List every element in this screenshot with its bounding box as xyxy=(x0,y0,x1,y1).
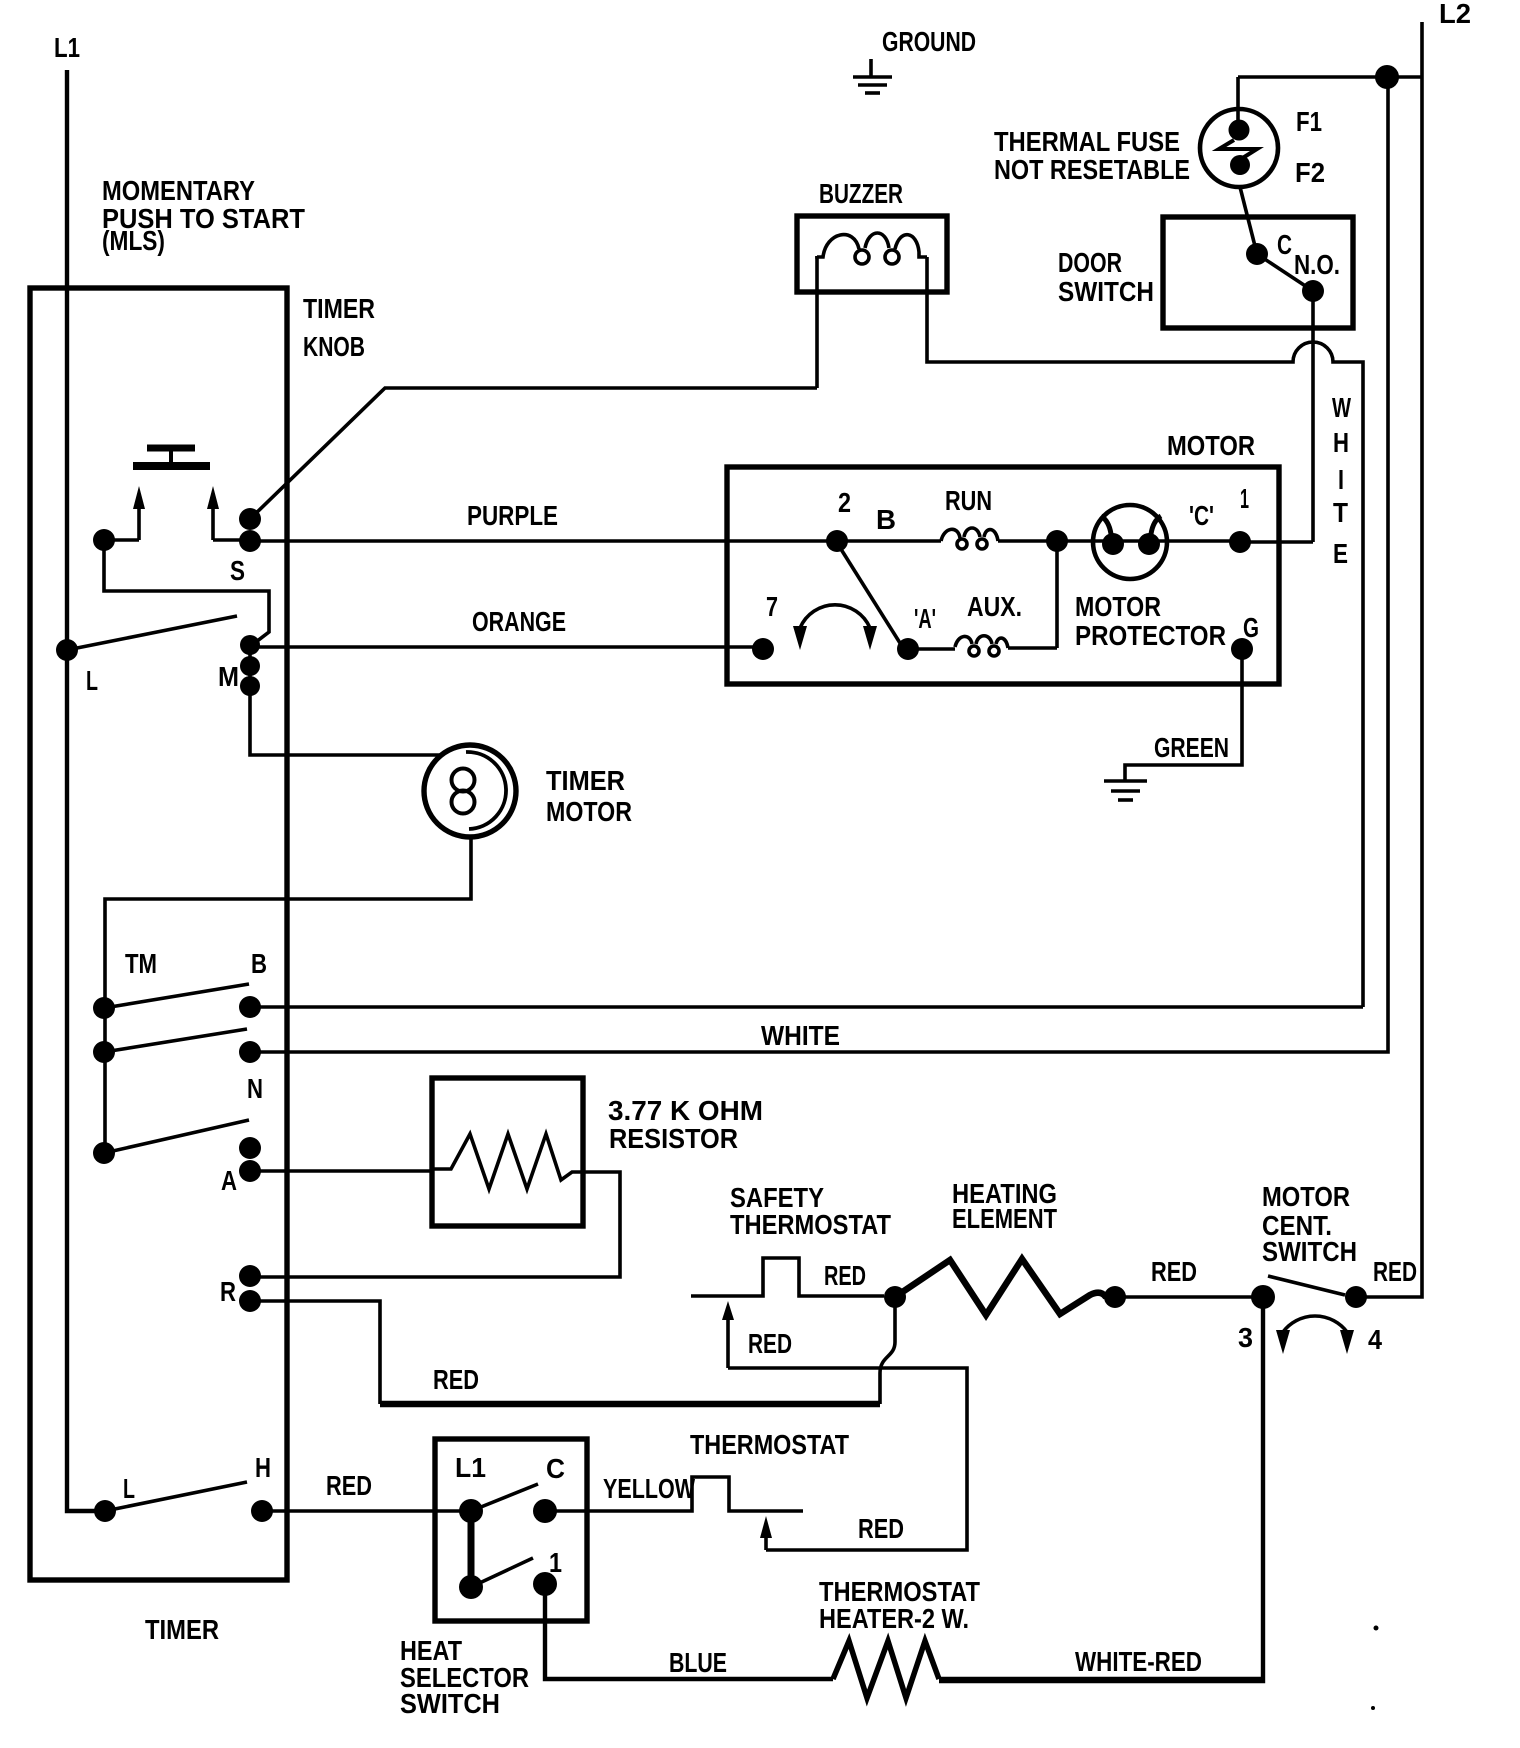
wire N WHITE to L2 junction xyxy=(250,77,1388,1052)
label MOTOR CENT. SWITCH xyxy=(1262,1181,1357,1267)
wire WHITE-RED xyxy=(939,1677,1263,1681)
svg-text:'C': 'C' xyxy=(1189,500,1214,531)
wire red safety to thermostat xyxy=(728,1368,967,1550)
svg-text:RED: RED xyxy=(748,1328,792,1359)
svg-text:F2: F2 xyxy=(1295,157,1325,188)
run winding xyxy=(837,528,1240,549)
svg-text:SWITCH: SWITCH xyxy=(1058,276,1154,307)
heating element zigzag xyxy=(895,1259,1115,1315)
svg-text:N.O.: N.O. xyxy=(1294,249,1340,280)
svg-text:MOTOR: MOTOR xyxy=(1075,591,1161,622)
push button left arrow xyxy=(133,486,145,540)
contact L1 dot selector xyxy=(459,1499,483,1523)
label SAFETY THERMOSTAT xyxy=(730,1182,891,1240)
svg-text:ELEMENT: ELEMENT xyxy=(952,1203,1057,1234)
wire RED horizontal heavy xyxy=(380,1401,880,1408)
blade TM-B xyxy=(104,984,249,1008)
blade C-N.O. xyxy=(1257,254,1313,291)
svg-text:PURPLE: PURPLE xyxy=(467,500,558,531)
svg-text:THERMOSTAT: THERMOSTAT xyxy=(690,1429,849,1460)
arc 3-4 with arrows xyxy=(1276,1316,1354,1354)
svg-text:RED: RED xyxy=(1373,1256,1417,1287)
svg-text:B: B xyxy=(251,948,267,979)
wire fuse to door switch C xyxy=(1240,187,1257,254)
svg-text:L1: L1 xyxy=(54,32,80,63)
svg-text:RUN: RUN xyxy=(945,485,992,516)
contact 1 dot xyxy=(1229,531,1251,553)
wire aux to run junction xyxy=(1055,541,1059,648)
svg-text:S: S xyxy=(230,555,245,586)
svg-text:RED: RED xyxy=(433,1364,479,1395)
svg-text:SWITCH: SWITCH xyxy=(400,1688,500,1719)
wire top junction to L2 xyxy=(1238,75,1422,79)
svg-text:BLUE: BLUE xyxy=(669,1647,727,1678)
svg-text:TIMER: TIMER xyxy=(303,293,375,324)
svg-text:A: A xyxy=(221,1165,237,1196)
blade 3-4 xyxy=(1268,1276,1345,1295)
wire ORANGE xyxy=(250,645,763,649)
svg-text:H: H xyxy=(1333,427,1349,458)
svg-text:YELLOW: YELLOW xyxy=(603,1473,695,1504)
thermal fuse F1 F2 circle xyxy=(1200,109,1278,187)
label MOMENTARY PUSH TO START (MLS) xyxy=(102,175,305,256)
buzzer coil xyxy=(817,233,927,264)
safety thermostat symbol xyxy=(691,1258,884,1296)
wire C to thermostat YELLOW xyxy=(545,1477,803,1511)
svg-text:E: E xyxy=(1333,538,1348,569)
svg-text:H: H xyxy=(255,1452,271,1483)
label HEAT SELECTOR SWITCH xyxy=(400,1635,529,1719)
label TIMER KNOB xyxy=(303,293,375,362)
blade L-H xyxy=(105,1482,247,1511)
svg-text:MOTOR: MOTOR xyxy=(546,796,632,827)
svg-text:L: L xyxy=(86,665,98,696)
junction dot heating left xyxy=(884,1286,906,1308)
wire 3 down to white-red xyxy=(939,1297,1263,1681)
wire PURPLE xyxy=(250,539,837,543)
svg-text:MOTOR: MOTOR xyxy=(1262,1181,1350,1212)
contact C dot xyxy=(1246,243,1268,265)
motor protector circle xyxy=(1093,505,1167,579)
contact M dots xyxy=(240,635,260,696)
svg-text:N: N xyxy=(247,1073,263,1104)
svg-text:TM: TM xyxy=(125,948,157,979)
timer box xyxy=(30,288,287,1580)
blade to A xyxy=(104,1120,249,1153)
contact 2 dot xyxy=(826,530,848,552)
svg-text:L1: L1 xyxy=(455,1452,486,1483)
contact R dots xyxy=(239,1265,261,1312)
wire N.O. down WHITE xyxy=(1311,291,1315,542)
svg-text:4: 4 xyxy=(1368,1324,1382,1355)
blade L1-C xyxy=(471,1484,538,1511)
label TIMER MOTOR xyxy=(546,765,632,827)
motor box xyxy=(727,467,1279,684)
wire left contact stub xyxy=(104,538,139,542)
contact S dots xyxy=(239,508,261,530)
svg-text:'A': 'A' xyxy=(914,603,936,634)
label 3.77 K OHM RESISTOR xyxy=(608,1095,763,1154)
svg-text:WHITE: WHITE xyxy=(761,1020,840,1051)
svg-text:KNOB: KNOB xyxy=(303,331,365,362)
resistor box xyxy=(432,1078,583,1226)
contact A dot motor xyxy=(897,638,919,660)
wire R RED down-right xyxy=(250,1301,380,1404)
svg-text:RESISTOR: RESISTOR xyxy=(609,1123,738,1154)
selector lower dot xyxy=(459,1575,483,1599)
junction dot top right xyxy=(1375,65,1399,89)
wire S-bend crossing xyxy=(880,1303,895,1404)
svg-text:GROUND: GROUND xyxy=(882,26,976,57)
svg-text:1: 1 xyxy=(549,1547,562,1578)
wire M to timer motor xyxy=(250,690,443,755)
thermostat heater zigzag xyxy=(833,1641,939,1698)
contact 7 dot xyxy=(752,638,774,660)
label MOTOR PROTECTOR xyxy=(1075,591,1226,651)
heat selector switch box xyxy=(435,1439,587,1621)
blade lower-1 xyxy=(471,1558,533,1587)
label THERMAL FUSE NOT RESETABLE xyxy=(994,126,1190,185)
svg-text:G: G xyxy=(1243,612,1259,643)
thermostat arrow xyxy=(760,1516,772,1550)
wire 1 to BLUE xyxy=(545,1584,833,1679)
contact TM dot xyxy=(93,997,115,1019)
ground symbol green xyxy=(1104,781,1147,800)
svg-text:2: 2 xyxy=(838,487,851,518)
svg-text:(MLS): (MLS) xyxy=(102,225,165,256)
label HEATING ELEMENT xyxy=(952,1178,1057,1234)
switch blade L to M xyxy=(67,616,237,650)
svg-text:W: W xyxy=(1332,392,1351,423)
push button actuator xyxy=(133,448,210,466)
contact N.O. dot xyxy=(1302,280,1324,302)
door switch box xyxy=(1163,217,1353,328)
svg-text:C: C xyxy=(546,1453,565,1484)
svg-text:GREEN: GREEN xyxy=(1154,732,1229,763)
svg-text:SWITCH: SWITCH xyxy=(1262,1236,1357,1267)
contact 4 dot xyxy=(1345,1286,1367,1308)
contact C dot selector xyxy=(533,1499,557,1523)
safety thermostat arrow xyxy=(722,1301,734,1368)
contact 3 dot xyxy=(1251,1285,1275,1309)
svg-text:1: 1 xyxy=(1240,483,1249,514)
wire push-button return to M xyxy=(104,549,269,645)
wire S to buzzer (diagonal) xyxy=(250,388,817,519)
svg-text:PROTECTOR: PROTECTOR xyxy=(1075,620,1226,651)
contact L dot on L1 xyxy=(56,639,78,661)
buzzer box xyxy=(797,216,947,292)
svg-text:HEATER-2 W.: HEATER-2 W. xyxy=(819,1603,969,1634)
svg-text:I: I xyxy=(1338,464,1344,495)
timer motor circle xyxy=(424,745,516,837)
blade to N xyxy=(104,1029,247,1052)
wire H RED to heat selector xyxy=(262,1509,471,1513)
svg-text:RED: RED xyxy=(858,1513,904,1544)
contact G dot xyxy=(1231,638,1253,660)
contact A dots xyxy=(239,1137,261,1182)
svg-text:AUX.: AUX. xyxy=(967,591,1022,622)
resistor R1 zigzag and return wire xyxy=(250,1134,620,1277)
wire RED element to 3 xyxy=(1115,1295,1263,1299)
svg-text:RED: RED xyxy=(326,1470,372,1501)
svg-text:TIMER: TIMER xyxy=(145,1614,219,1645)
selector bar xyxy=(468,1511,475,1587)
svg-text:L: L xyxy=(123,1473,135,1504)
wire S stub xyxy=(213,538,250,542)
label THERMOSTAT HEATER-2 W. xyxy=(819,1576,980,1634)
svg-text:THERMOSTAT: THERMOSTAT xyxy=(730,1209,891,1240)
blade 2 to A xyxy=(839,546,900,643)
svg-text:B: B xyxy=(876,504,896,535)
svg-text:F1: F1 xyxy=(1296,106,1322,137)
wire buzzer right lead with hop xyxy=(927,257,1363,1007)
wire L2 xyxy=(1356,22,1422,1297)
wire buzzer left lead xyxy=(815,256,819,388)
wire A to resistor xyxy=(250,1169,432,1173)
svg-text:3.77 K OHM: 3.77 K OHM xyxy=(608,1095,763,1126)
wire B to buzzer branch xyxy=(250,1005,1363,1009)
svg-text:MOMENTARY: MOMENTARY xyxy=(102,175,255,206)
contact dot third xyxy=(93,1142,115,1164)
svg-text:TIMER: TIMER xyxy=(546,765,625,796)
arc 7-A with arrows xyxy=(793,605,877,650)
wire GREEN to ground xyxy=(1125,649,1242,781)
push button right arrow xyxy=(207,486,219,540)
svg-text:BUZZER: BUZZER xyxy=(819,178,903,209)
contact H dot xyxy=(251,1500,273,1522)
contact dot below TM xyxy=(93,1041,115,1063)
heating element right dot xyxy=(1104,1286,1126,1308)
contact L dot (bottom) xyxy=(94,1500,116,1522)
svg-text:3: 3 xyxy=(1238,1322,1253,1353)
svg-text:MOTOR: MOTOR xyxy=(1167,430,1255,461)
svg-text:RED: RED xyxy=(1151,1256,1197,1287)
svg-text:M: M xyxy=(218,661,239,692)
label DOOR SWITCH xyxy=(1058,247,1154,307)
wire L1 vertical xyxy=(67,70,105,1511)
wire timer motor return xyxy=(105,837,471,1153)
svg-text:WHITE-RED: WHITE-RED xyxy=(1075,1646,1202,1677)
svg-text:THERMAL FUSE: THERMAL FUSE xyxy=(994,126,1180,157)
svg-text:R: R xyxy=(220,1276,236,1307)
svg-text:T: T xyxy=(1333,497,1348,528)
svg-text:7: 7 xyxy=(766,591,778,622)
aux winding xyxy=(908,636,1057,656)
svg-text:RED: RED xyxy=(824,1260,866,1291)
svg-text:C: C xyxy=(1277,229,1292,260)
scan speck xyxy=(1371,1706,1375,1710)
label WHITE (vertical) xyxy=(1332,392,1351,569)
wire pin1 to white xyxy=(1240,540,1313,544)
svg-text:L2: L2 xyxy=(1439,0,1471,29)
push button left contact dot xyxy=(93,529,115,551)
wire fuse feed xyxy=(1236,77,1240,124)
contact 1 dot selector xyxy=(533,1572,557,1596)
contact B dot xyxy=(239,996,261,1018)
junction dot run/aux xyxy=(1046,530,1068,552)
ground symbol top xyxy=(853,59,892,93)
contact N dot xyxy=(239,1041,261,1063)
scan speck xyxy=(1374,1626,1379,1631)
svg-text:DOOR: DOOR xyxy=(1058,247,1122,278)
svg-text:NOT RESETABLE: NOT RESETABLE xyxy=(994,154,1190,185)
svg-text:ORANGE: ORANGE xyxy=(472,606,566,637)
